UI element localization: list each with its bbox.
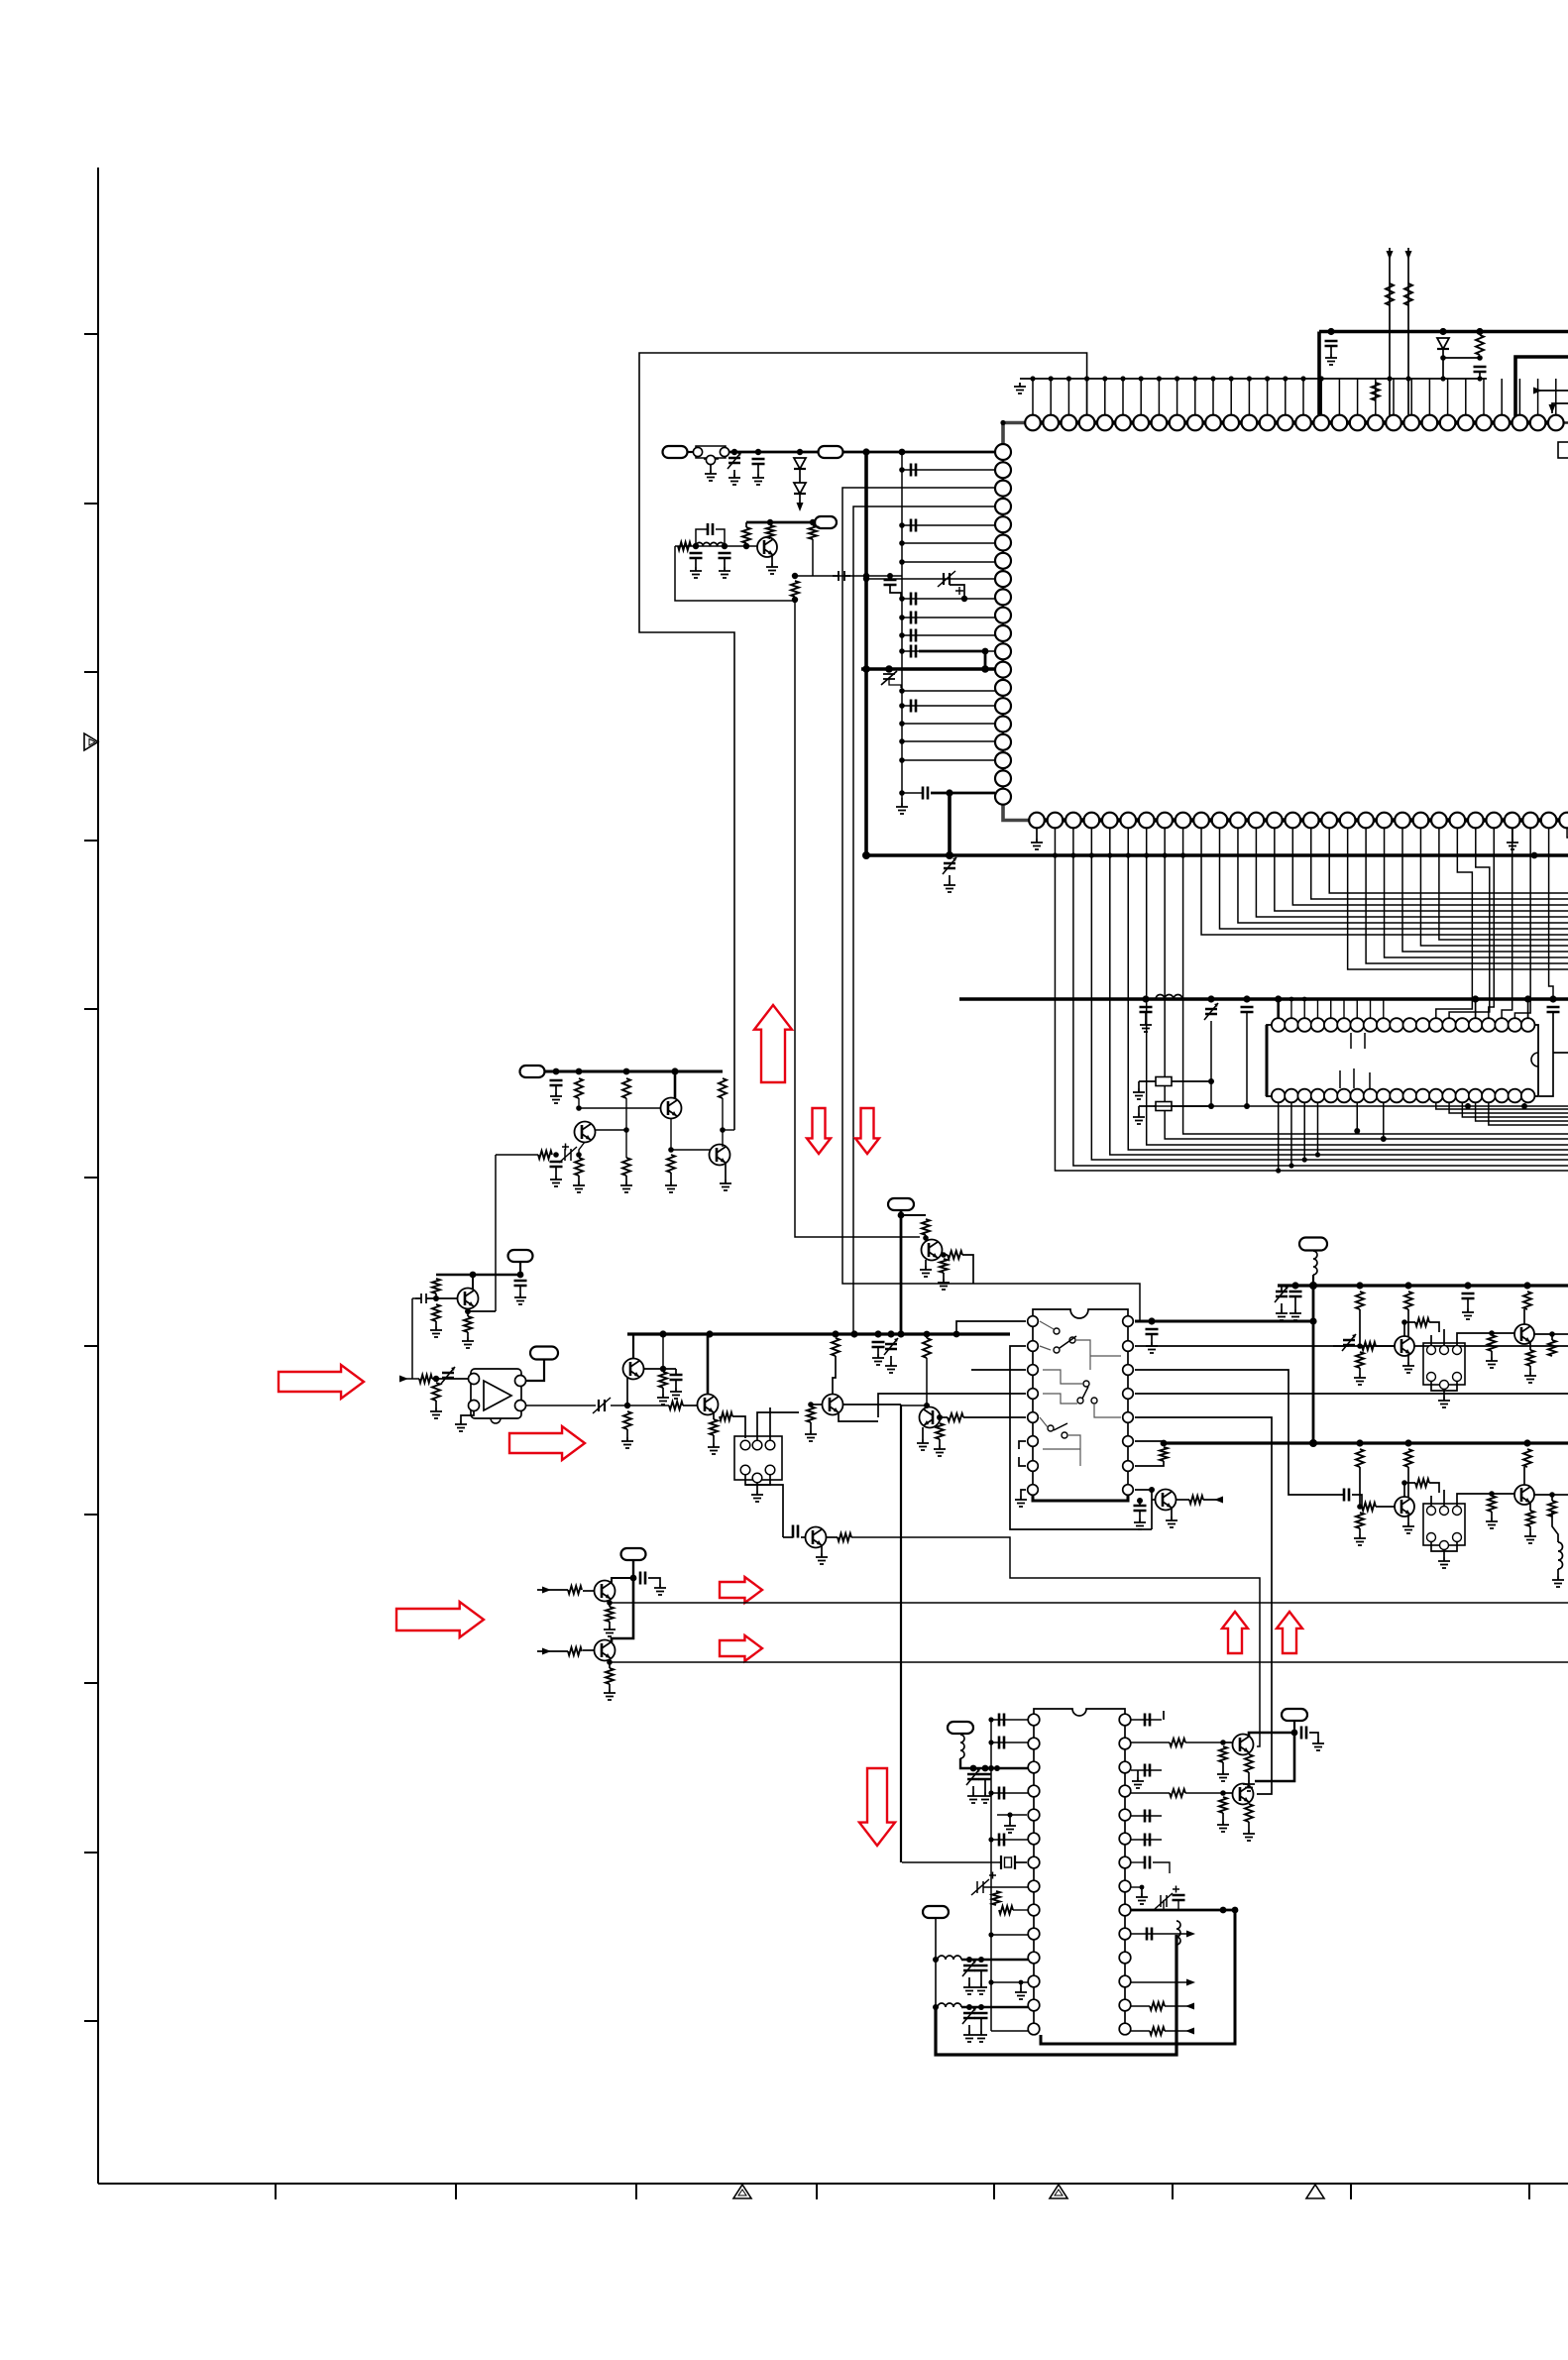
junction <box>966 1957 972 1963</box>
wire <box>902 792 922 794</box>
resistor R50 <box>1526 1511 1534 1526</box>
wire <box>670 1173 672 1181</box>
wire <box>412 1297 415 1299</box>
wire <box>1366 829 1568 963</box>
junction <box>792 573 798 579</box>
ground <box>1486 1357 1498 1368</box>
wire <box>625 1098 627 1158</box>
junction <box>885 665 893 673</box>
wire <box>632 1334 634 1359</box>
transistor Q16 <box>1514 1485 1534 1505</box>
junction <box>923 1235 929 1241</box>
junction <box>517 1272 524 1279</box>
wire <box>1131 1861 1145 1863</box>
ground <box>1136 1893 1148 1904</box>
junction <box>1405 376 1410 381</box>
wire <box>1527 999 1529 1018</box>
trimmer capacitor CT8 <box>966 1768 980 1785</box>
junction <box>933 2004 939 2010</box>
junction <box>1175 376 1179 381</box>
wire <box>1294 1296 1296 1309</box>
resistor R38 <box>1356 1352 1364 1368</box>
capacitor C31 <box>999 1714 1004 1727</box>
ground <box>455 1420 467 1431</box>
jumper JP2 <box>1156 1102 1172 1111</box>
junction <box>1157 376 1162 381</box>
ground <box>654 1584 666 1595</box>
wire <box>1467 1103 1469 1106</box>
wire <box>1404 1322 1415 1336</box>
ground <box>896 803 908 814</box>
ground <box>1004 1822 1016 1833</box>
wire <box>1303 1103 1305 1160</box>
junction <box>953 1331 960 1338</box>
ground <box>752 474 764 485</box>
wire <box>1292 829 1568 905</box>
border tick <box>1172 2184 1174 2199</box>
wire <box>1549 829 1553 999</box>
wire <box>1333 1345 1349 1347</box>
wire <box>922 1427 924 1439</box>
junction <box>1149 1487 1155 1493</box>
junction <box>660 1366 666 1372</box>
ground <box>690 567 702 578</box>
junction <box>982 1765 989 1772</box>
junction <box>1049 376 1054 381</box>
ground <box>1134 1518 1146 1529</box>
capacitor C19 <box>550 1080 563 1085</box>
wire <box>940 1416 948 1418</box>
ground <box>979 1792 991 1803</box>
wire <box>1138 1106 1140 1113</box>
resistor R3 <box>766 525 774 538</box>
wire <box>1275 829 1568 911</box>
wire <box>799 469 801 483</box>
wire <box>467 1332 469 1337</box>
ground <box>1552 1576 1564 1587</box>
resistor R48 <box>1415 1479 1429 1487</box>
wire <box>902 561 995 563</box>
wire <box>1376 1345 1395 1347</box>
ground <box>944 881 955 892</box>
wire <box>611 1405 669 1406</box>
capacitor C22 <box>670 1375 683 1380</box>
transistor Q6 <box>623 1359 644 1380</box>
arrowhead <box>1185 2028 1194 2035</box>
capacitor C34 <box>999 1834 1004 1847</box>
resistor R19 <box>623 1411 631 1429</box>
junction <box>623 1127 629 1133</box>
resistor R43 <box>1356 1449 1364 1467</box>
wire <box>810 1422 812 1430</box>
junction <box>899 449 906 456</box>
wire <box>902 650 995 652</box>
trimmer capacitor CT1 <box>728 452 741 469</box>
wire <box>1552 1494 1568 1496</box>
junction <box>1381 1136 1387 1142</box>
wire <box>983 1886 1028 1888</box>
resistor R27 <box>936 1423 944 1439</box>
trimmer capacitor CT9 <box>962 1960 976 1976</box>
wire <box>1172 1105 1211 1107</box>
wire <box>1246 1012 1248 1106</box>
capacitor C38 <box>1145 1714 1150 1727</box>
switch contacts <box>1043 1370 1121 1417</box>
wire <box>902 723 995 725</box>
junction <box>899 467 905 473</box>
border tick <box>816 2184 818 2199</box>
wire <box>435 1293 437 1298</box>
transistor Q11 <box>922 1240 943 1261</box>
wire <box>961 1959 1028 1961</box>
trimmer capacitor <box>593 1398 611 1413</box>
wire <box>851 1537 1260 1746</box>
junction <box>899 757 905 763</box>
junction <box>470 1272 477 1279</box>
wire <box>612 1578 633 1583</box>
arrowhead <box>1405 251 1412 260</box>
junction <box>1477 355 1483 361</box>
wire <box>801 1536 806 1538</box>
wire <box>1359 1309 1361 1346</box>
wire <box>1439 829 1568 940</box>
wire bus <box>1278 1284 1568 1287</box>
IC U1 pins left column <box>995 444 1011 805</box>
junction <box>755 449 761 455</box>
wire <box>1407 248 1409 416</box>
ground <box>550 1176 562 1186</box>
wire <box>1019 1457 1026 1466</box>
resistor R20 <box>669 1402 683 1409</box>
wire <box>1118 1910 1235 2044</box>
junction <box>1549 995 1556 1002</box>
ground <box>1243 1780 1255 1791</box>
junction <box>899 688 905 694</box>
wire <box>1309 1733 1318 1740</box>
junction <box>1404 1282 1411 1289</box>
ground <box>1166 1517 1177 1527</box>
wire <box>811 1404 823 1405</box>
wire <box>626 1429 628 1437</box>
junction <box>988 1932 993 1937</box>
wire <box>962 1255 973 1284</box>
wire <box>1131 1886 1142 1888</box>
wire <box>496 1154 538 1156</box>
wire <box>901 1405 927 1406</box>
resistor R5 <box>791 581 799 597</box>
resistor R55 <box>606 1668 614 1684</box>
capacitor C45 <box>1301 1727 1306 1740</box>
wire <box>579 1142 585 1155</box>
junction <box>623 1068 630 1075</box>
wire <box>1443 1550 1445 1557</box>
wire <box>472 1275 474 1290</box>
wire <box>902 634 995 636</box>
wire <box>1147 829 1568 1145</box>
wire <box>902 759 995 761</box>
wire <box>1165 829 1568 1139</box>
wire <box>1534 1334 1552 1340</box>
resistor R18 <box>659 1372 667 1388</box>
wire <box>1010 1346 1152 1529</box>
capacitor C39 <box>1145 1764 1150 1777</box>
junction <box>1137 1498 1143 1504</box>
resistor R10 <box>575 1158 583 1176</box>
ground <box>573 1181 585 1192</box>
wire <box>1019 1441 1026 1449</box>
resistor R58 <box>1170 1739 1185 1746</box>
resistor R65 <box>1245 1804 1253 1822</box>
wire <box>577 1154 579 1156</box>
ground <box>805 1430 817 1441</box>
junction <box>1489 1491 1495 1497</box>
wire <box>1152 1499 1156 1501</box>
capacitor C30 <box>640 1572 645 1585</box>
arrowhead <box>797 503 804 511</box>
trimmer capacitor <box>938 571 963 595</box>
capacitor C27 <box>1289 1292 1302 1296</box>
resistor R59 <box>1170 1789 1185 1797</box>
resistor R31 <box>940 1259 948 1273</box>
junction <box>630 1575 637 1582</box>
ground <box>975 1983 987 1994</box>
junction <box>981 665 989 673</box>
wire <box>799 494 801 507</box>
wire <box>1176 1499 1189 1501</box>
wire <box>671 1149 711 1151</box>
wire <box>980 1970 982 1983</box>
junction <box>1309 1282 1317 1290</box>
transistor Q8 <box>823 1395 843 1415</box>
resistor R9 <box>622 1158 630 1176</box>
wire <box>1131 1909 1235 1912</box>
junction <box>1084 376 1089 381</box>
ground <box>1507 839 1518 849</box>
wire <box>1457 1494 1492 1506</box>
wire <box>519 1263 521 1275</box>
inductor L8 <box>1176 1921 1180 1945</box>
wire <box>1137 1770 1139 1777</box>
wire <box>435 1401 437 1407</box>
wire <box>436 1274 520 1277</box>
capacitor C9 <box>911 519 916 532</box>
wire <box>1153 1862 1170 1873</box>
wire <box>468 1310 496 1312</box>
border tick <box>84 333 98 335</box>
wire <box>812 539 814 576</box>
wire <box>1489 829 1494 1018</box>
wire <box>902 542 995 544</box>
resistor R44 <box>1404 1449 1412 1467</box>
junction <box>1030 376 1035 381</box>
resistor R51 <box>1548 1501 1556 1517</box>
wire <box>1512 829 1513 839</box>
red flow arrow <box>1222 1612 1248 1653</box>
junction <box>1357 1343 1363 1349</box>
wire <box>1172 1080 1211 1082</box>
junction <box>899 721 905 727</box>
resistor R25 <box>923 1338 931 1358</box>
wire <box>724 558 726 567</box>
red flow arrow <box>509 1426 585 1460</box>
transistor Q2 <box>661 1098 682 1119</box>
capacitor C8 <box>911 464 916 477</box>
wire <box>1131 1981 1188 1983</box>
junction <box>693 543 699 549</box>
transistor Q7 <box>698 1395 719 1415</box>
capacitor C20 <box>550 1162 563 1167</box>
wire <box>1139 1501 1141 1506</box>
IC U1 body <box>1000 420 1568 821</box>
ground <box>1132 1777 1144 1788</box>
wire <box>1281 1286 1283 1292</box>
junction <box>1476 328 1483 335</box>
wire <box>710 465 712 470</box>
ground <box>620 1181 632 1192</box>
wire <box>495 1155 497 1311</box>
wire <box>746 521 815 524</box>
wire <box>1462 1103 1568 1117</box>
wire <box>902 740 995 742</box>
wire <box>1316 999 1318 1018</box>
arrowhead <box>542 1587 551 1594</box>
ground <box>1217 1821 1229 1832</box>
junction <box>1192 376 1197 381</box>
transistor Q20 <box>1233 1784 1254 1805</box>
diode D1 <box>1437 338 1449 349</box>
junction <box>978 2004 984 2010</box>
junction <box>1232 1907 1239 1914</box>
ground <box>728 474 740 485</box>
wire <box>935 1918 937 1960</box>
wire <box>1356 1103 1358 1131</box>
wire <box>956 1321 1026 1334</box>
wire <box>769 537 770 539</box>
trimmer capacitor CT2 <box>943 857 956 874</box>
inductor L7 <box>938 2003 961 2007</box>
wire input bus <box>729 451 819 454</box>
wire <box>1303 999 1305 1018</box>
wire <box>461 1411 474 1420</box>
capacitor C24 <box>793 1525 798 1538</box>
red flow arrow <box>859 1768 895 1846</box>
wire <box>1492 1332 1514 1334</box>
ground <box>938 1279 950 1290</box>
wire <box>1383 999 1385 1018</box>
wire <box>537 1650 568 1652</box>
wire bus <box>627 1332 1010 1335</box>
ground <box>766 563 778 574</box>
wire <box>583 1590 595 1592</box>
capacitor C42 <box>1145 1856 1150 1869</box>
junction <box>1053 852 1058 857</box>
wire <box>1552 403 1568 413</box>
ground <box>604 1689 616 1700</box>
wire <box>1248 1752 1250 1754</box>
junction <box>961 596 967 602</box>
border tick <box>84 1514 98 1516</box>
resistor <box>1476 335 1484 355</box>
resistor R42 <box>1548 1340 1556 1356</box>
wire <box>1312 1275 1314 1286</box>
wire <box>864 452 868 855</box>
junction <box>1208 1078 1214 1084</box>
junction <box>1102 376 1107 381</box>
wire <box>936 1935 1176 2055</box>
wire <box>1479 372 1481 379</box>
wire <box>1404 1483 1415 1497</box>
inductor L3 <box>1313 1251 1317 1275</box>
resistor R57 <box>999 1906 1013 1914</box>
transistor Q15 <box>1395 1497 1414 1517</box>
wire <box>1492 1493 1514 1495</box>
switch contacts <box>1040 1417 1080 1466</box>
wire <box>1407 1467 1409 1497</box>
wire <box>1248 1772 1250 1780</box>
junction <box>1142 995 1149 1002</box>
resistor R7 <box>622 1078 630 1098</box>
wire <box>467 1308 469 1316</box>
wire <box>675 545 757 547</box>
connector CN3 <box>815 516 837 528</box>
ground <box>975 2031 987 2042</box>
resistor <box>1386 283 1394 305</box>
junction <box>1276 1168 1281 1173</box>
junction <box>1357 1504 1363 1510</box>
junction <box>874 1330 881 1337</box>
junction <box>862 448 869 455</box>
wire <box>842 1404 901 1405</box>
wire <box>579 1098 661 1108</box>
wire spine <box>990 1720 992 2031</box>
junction <box>1019 1980 1024 1985</box>
resistor R36 <box>1523 1292 1531 1309</box>
resistor R35 <box>1404 1292 1412 1309</box>
wire <box>612 1578 633 1642</box>
junction <box>897 1330 904 1337</box>
resistor R40 <box>1488 1335 1496 1351</box>
module <box>1423 1504 1465 1550</box>
wire <box>926 1358 928 1405</box>
junction <box>1309 1439 1317 1447</box>
wire <box>900 1405 902 1862</box>
junction <box>576 1105 582 1111</box>
wire <box>1145 1012 1147 1021</box>
wire <box>1135 1441 1164 1443</box>
ground <box>967 1792 979 1803</box>
wire <box>942 1254 948 1256</box>
wire <box>972 1786 974 1792</box>
junction <box>1210 376 1215 381</box>
capacitor C21 <box>514 1281 527 1286</box>
wire <box>1183 829 1568 1134</box>
red flow arrow <box>807 1108 831 1154</box>
resistor R64 <box>1245 1754 1253 1772</box>
wire <box>826 1536 838 1538</box>
border tick <box>84 1682 98 1684</box>
wire <box>1359 1368 1361 1374</box>
wire <box>1429 1483 1439 1493</box>
junction <box>1291 1282 1298 1289</box>
wire <box>1330 346 1332 354</box>
page border left <box>97 168 99 2184</box>
capacitor C14 <box>911 645 916 658</box>
border tick <box>84 2020 98 2022</box>
wire <box>1330 999 1332 1018</box>
wire <box>1131 2030 1150 2032</box>
wire <box>1290 999 1292 1018</box>
ground <box>751 1491 763 1502</box>
